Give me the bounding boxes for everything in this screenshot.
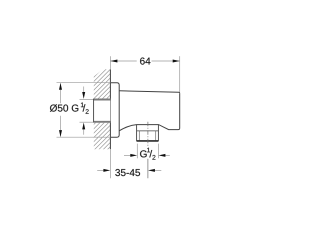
extension line top of dia 50 <box>57 82 111 84</box>
outlet thread start line <box>137 130 159 132</box>
dia 50 down arrowhead <box>59 130 62 137</box>
extension line bottom of dia 50 <box>57 136 111 138</box>
extension line right of dim 64 <box>179 56 181 92</box>
extension line top of wall union <box>80 98 94 100</box>
outlet nipple right edge <box>157 125 159 142</box>
union G1/2 down arrow <box>83 87 85 93</box>
dia 50 dimension line lower segment <box>60 116 62 137</box>
extension line left of dim 64 (above wall) <box>109 56 111 69</box>
outlet G1/2 right arrow <box>165 154 170 156</box>
outlet G1/2 extension line left <box>136 144 138 159</box>
wall hatch <box>12 50 207 150</box>
dimension 64 left arrowhead <box>111 60 118 63</box>
outlet thick bottom edge <box>137 140 159 142</box>
dimension 64 line left segment <box>110 60 136 62</box>
outlet centerline dash-dot <box>147 122 149 147</box>
union thick top edge <box>94 99 111 101</box>
outlet thread root right <box>155 131 157 141</box>
dimension 64 line right segment <box>152 60 180 62</box>
union thick bottom edge <box>94 121 111 123</box>
body top edge <box>119 91 180 94</box>
centerline lower solid segment <box>147 159 149 179</box>
outlet G1/2 left arrow <box>124 154 131 156</box>
dim 35-45 text <box>115 169 140 176</box>
outlet G1/2 extension line right <box>157 144 159 159</box>
extension line below wall for dim 35-45 <box>109 149 111 178</box>
union left edge <box>93 99 95 123</box>
extension line bottom of wall union <box>80 121 94 123</box>
dimension 64 right arrowhead <box>173 60 180 63</box>
body bottom and underside <box>119 125 180 131</box>
wall face line <box>109 70 111 150</box>
dimension 64 text <box>140 58 150 65</box>
union G1/2 up arrow <box>83 129 85 135</box>
dia 50 dimension line upper segment <box>60 84 62 104</box>
dim 35-45 left arrow <box>97 169 104 171</box>
in-wall union body rectangle <box>94 99 111 123</box>
flange (escutcheon) outline <box>110 83 119 138</box>
outlet nipple left edge <box>136 125 138 142</box>
dia 50 up arrowhead <box>59 83 62 90</box>
outlet thread root left <box>138 131 140 141</box>
body front face <box>179 93 181 128</box>
dim 35-45 right arrow <box>154 169 161 171</box>
outlet G1/2 label <box>140 148 155 160</box>
label dia50 G1/2 <box>50 103 89 114</box>
